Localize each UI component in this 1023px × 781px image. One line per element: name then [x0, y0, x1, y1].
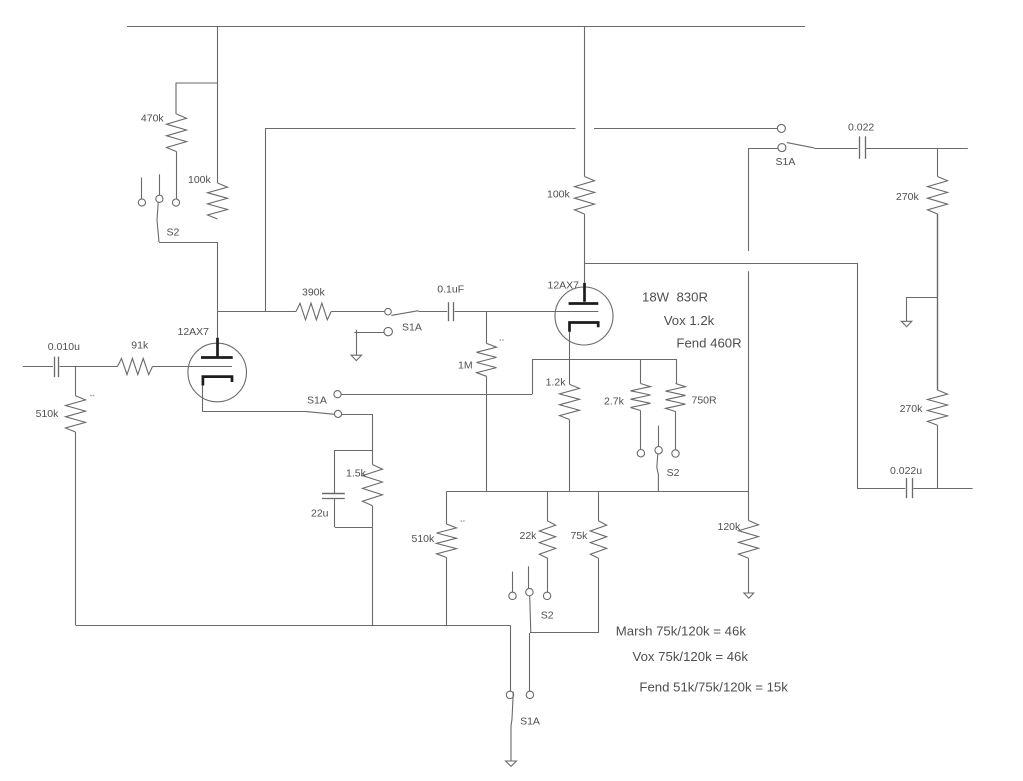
wire - S1A bottom contact to 1.5k network — [342, 414, 373, 416]
wire - S2 blade to 100k bottom node — [159, 242, 218, 244]
switch S1A (mid) pole circle — [385, 308, 392, 315]
wire - long feed to S1A right (right part, hop over x584) — [594, 128, 778, 130]
svg-text:Marsh 75k/120k = 46k: Marsh 75k/120k = 46k — [616, 623, 747, 638]
resistor 510k (lower) — [446, 492, 448, 525]
svg-text:S1A: S1A — [520, 716, 540, 728]
svg-text:22u: 22u — [311, 507, 329, 519]
switch S1A (right) bottom circle — [778, 144, 786, 152]
switch S2 pole circle — [156, 195, 163, 202]
switch S1A (bottom) blade — [511, 692, 513, 761]
wire - 270k lower bottom lead — [937, 425, 939, 488]
wire - 0.1uF to V2 grid — [455, 311, 599, 313]
resistor 1.2k — [560, 384, 580, 419]
svg-text:270k: 270k — [900, 403, 924, 415]
wire - 470k bottom lead — [176, 152, 178, 199]
wire - main ground rail — [76, 625, 510, 627]
svg-text:1.2k: 1.2k — [546, 377, 567, 389]
triode V1a cathode — [203, 377, 232, 386]
svg-text:750R: 750R — [692, 395, 718, 407]
wire - cap to 91k — [60, 366, 118, 368]
svg-text:0.022u: 0.022u — [890, 465, 922, 477]
wire - 75k top lead — [598, 492, 600, 521]
switch S1A (mid) lower contact circle — [384, 327, 392, 335]
switch S2 (mid) pole circle — [655, 447, 662, 454]
wire - right B+ drop — [584, 26, 586, 177]
switch S1A (mid) blade — [391, 311, 418, 316]
switch S2 (bottom) left contact circle — [509, 592, 516, 599]
wire - 1M bottom to cathode rail — [486, 376, 488, 491]
switch S2 blade — [157, 203, 159, 242]
resistor 1M — [477, 343, 497, 376]
resistor 22k — [539, 521, 555, 558]
wire - lower contact to ground stub — [354, 332, 384, 334]
ground (120k) — [744, 593, 754, 598]
svg-text:91k: 91k — [131, 340, 149, 352]
wire - 22u bottom lead — [334, 498, 336, 527]
switch S2 (bottom) pole stub — [528, 566, 530, 588]
wire - cathode network bottom rail — [447, 491, 749, 493]
svg-text:S2: S2 — [541, 610, 554, 622]
wire - V1a cathode lead — [202, 386, 204, 412]
resistor 270k (lower) — [928, 390, 948, 425]
svg-text:390k: 390k — [302, 286, 326, 298]
wire - bypass network bottom — [335, 527, 372, 529]
svg-text:S1A: S1A — [307, 394, 327, 406]
wire - V2 plate node to right coupling — [584, 263, 857, 265]
switch S2 (mid) left contact circle — [637, 450, 644, 457]
svg-text:22k: 22k — [520, 530, 538, 542]
svg-text:100k: 100k — [547, 188, 571, 200]
wire - V2 cathode lead through rail to 1.2k — [569, 332, 571, 385]
switch S1A (left) blade — [305, 411, 335, 414]
resistor 2.7k — [631, 384, 651, 411]
svg-text:S2: S2 — [667, 467, 680, 479]
ground stub (right divider) — [907, 297, 938, 299]
resistor 1.5k — [372, 450, 374, 465]
wire - top B+ rail — [127, 26, 805, 28]
wire - S1A top contact to V2 cathode rail — [341, 394, 532, 396]
switch S2 (bottom) right contact circle — [543, 592, 550, 599]
triode V2a 12AX7 envelope — [555, 287, 613, 345]
wire - network down to ground rail — [372, 527, 374, 625]
ground stub (S1A mid) — [356, 330, 358, 355]
ground (S1A bottom) — [506, 761, 517, 766]
wire - 510k bottom to ground rail — [75, 432, 77, 625]
wire - long feed to S1A right (left part) — [265, 128, 576, 130]
svg-text:S1A: S1A — [402, 321, 422, 333]
wire - drop to 510k input — [75, 367, 77, 396]
switch S2 (bottom) blade — [530, 596, 531, 633]
wire - plate V1 down to tube — [217, 242, 219, 338]
resistor 120k — [748, 492, 750, 521]
switch S2 (mid) right contact circle — [672, 450, 679, 457]
svg-text:2.7k: 2.7k — [604, 396, 625, 408]
switch S2 contact circle left — [138, 199, 145, 206]
wire - 1.2k bottom lead — [569, 420, 571, 492]
capacitor 0.1uF — [448, 302, 450, 321]
wire - bottom contact feed from riser — [749, 148, 778, 150]
svg-text:12AX7: 12AX7 — [178, 326, 210, 338]
resistor 91k — [118, 358, 153, 374]
switch S1A (left) bottom circle — [334, 410, 341, 417]
wire - 270k junction down — [937, 214, 939, 390]
switch S2 (bottom) left contact stub — [512, 572, 514, 593]
resistor 510k (input) — [66, 396, 86, 432]
wire - 22k top lead — [547, 492, 549, 521]
capacitor 0.010u — [54, 357, 56, 378]
svg-text:1.5k: 1.5k — [346, 467, 367, 479]
resistor 750R — [666, 384, 686, 412]
svg-text:S1A: S1A — [776, 156, 796, 168]
wire - right bottom rail right part — [913, 488, 972, 490]
svg-text:Vox 75k/120k = 46k: Vox 75k/120k = 46k — [633, 649, 749, 664]
svg-text:0.022: 0.022 — [848, 121, 874, 133]
wire - riser x748 upper (breaks at y263 crossover) — [748, 148, 750, 251]
svg-text:100k: 100k — [188, 174, 212, 186]
svg-text:Vox 1.2k: Vox 1.2k — [664, 313, 715, 328]
switch S2 (mid) blade — [657, 454, 659, 492]
svg-text:510k: 510k — [412, 533, 436, 545]
resistor 270k (upper) — [928, 177, 948, 215]
wire - 1M top lead — [486, 312, 488, 344]
svg-text:Fend 51k/75k/120k = 15k: Fend 51k/75k/120k = 15k — [639, 679, 788, 694]
switch S2 (top left) contact stub left — [141, 178, 143, 199]
wire - left B+ drop to 100k — [217, 26, 219, 183]
capacitor 22u — [322, 493, 345, 495]
wire - riser x265 up — [265, 128, 267, 312]
resistor 100k (right) — [575, 177, 595, 215]
resistor 100k (left) — [208, 183, 228, 219]
wire - 510k lower bottom lead — [446, 558, 448, 626]
wire - right riser down — [857, 263, 859, 488]
svg-text:S2: S2 — [167, 227, 180, 239]
wire - 390k to S1A mid — [331, 311, 384, 313]
svg-text:Fend 460R: Fend 460R — [676, 335, 741, 350]
switch S2 contact circle right (to 470k) — [172, 199, 179, 206]
triode V1a 12AX7 envelope — [188, 343, 247, 402]
switch S2 (mid) pole stub — [658, 426, 660, 447]
switch S1A (bottom) pole circle — [506, 691, 513, 698]
wire - 750R bottom lead — [675, 412, 677, 450]
triode V1a plate — [216, 338, 219, 357]
switch S1A (right) top circle — [777, 124, 785, 132]
wire - 91k to V1 grid — [153, 366, 233, 368]
switch S1A (right) blade — [787, 143, 814, 148]
capacitor 0.022u — [906, 478, 908, 498]
svg-text:270k: 270k — [896, 191, 920, 203]
svg-text:0.1uF: 0.1uF — [437, 283, 464, 295]
wire - 75k bottom lead — [598, 558, 600, 633]
svg-text:470k: 470k — [141, 113, 165, 125]
wire - 750R top lead — [676, 359, 678, 384]
wire - blade to 0.1uF — [418, 311, 447, 313]
svg-text:1M: 1M — [458, 359, 473, 371]
switch S2 (bottom) pole circle — [526, 588, 533, 595]
wire - V2 cathode rail — [532, 359, 676, 361]
wire - 100k to V2 plate — [584, 214, 586, 283]
wire - 22k bottom lead — [547, 558, 549, 592]
wire - 2.7k top lead — [640, 359, 642, 384]
wire - input left — [23, 366, 53, 368]
svg-text:18W 830R: 18W 830R — [642, 290, 708, 305]
svg-text:0.010u: 0.010u — [48, 341, 80, 353]
wire - 2.7k bottom lead — [640, 411, 642, 450]
svg-text:120k: 120k — [718, 521, 742, 533]
wire - 22u top lead — [334, 450, 336, 493]
switch S1A (bottom) right contact circle — [526, 691, 533, 698]
triode V2a cathode — [570, 323, 599, 332]
resistor 75k — [590, 521, 606, 558]
wire - 75k to S2 bottom junction — [530, 632, 599, 634]
switch S1A (left) top circle — [334, 391, 341, 398]
wire - junction down to S1A contact — [529, 633, 531, 691]
svg-text:12AX7: 12AX7 — [548, 280, 580, 292]
resistor 390k — [296, 303, 331, 320]
wire - plate V1 node to coupling riser — [218, 311, 266, 313]
resistor 470k — [167, 114, 187, 152]
wire - right bottom rail left part — [857, 488, 905, 490]
capacitor 0.022 — [859, 136, 861, 159]
triode V2a plate — [583, 283, 586, 302]
svg-text:75k: 75k — [571, 530, 589, 542]
wire - blade to 0.022 — [814, 148, 858, 150]
wire - rail down to S1A bottom pole — [510, 625, 512, 691]
wire - 0.022 to tone stack — [866, 148, 968, 150]
wire - 120k bottom lead — [748, 558, 750, 593]
switch S2 pole stub — [159, 174, 161, 195]
wire - bypass network top — [335, 450, 372, 452]
svg-text:510k: 510k — [36, 408, 60, 420]
wire - 470k top branch — [176, 83, 218, 114]
wire - V1 plate node to 390k — [218, 311, 297, 313]
wire - riser x748 lower — [748, 271, 750, 491]
wire - 270k top lead — [937, 148, 939, 176]
